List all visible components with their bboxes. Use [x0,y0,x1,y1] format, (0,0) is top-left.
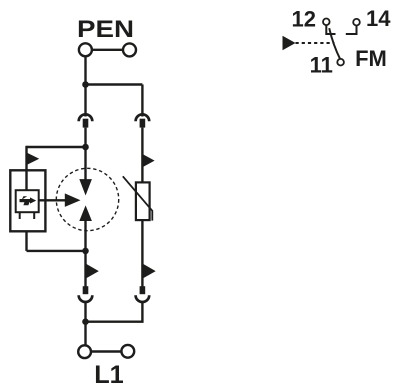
FM contact terminal 11 [337,59,344,66]
terminal L1 left [78,345,91,358]
terminal PEN left [79,43,92,56]
arrow on varistor branch lower [143,264,156,278]
wire trigger box bottom [25,231,27,251]
svg-text:PEN: PEN [77,16,134,43]
wire PEN down [84,56,86,116]
wire branch top horizontal [86,83,143,85]
trigger arrow shaft [39,199,66,201]
spark gap electrode upper [79,179,92,195]
FM fixed contact 14 [346,26,357,34]
wire trigger bottom horizontal [27,250,86,252]
wire center below spark gap [84,220,86,251]
varistor body [136,182,150,220]
spark gap dashed circle [56,168,118,230]
FM contact terminal 12 [323,19,330,26]
arrow on left main lower [86,264,99,278]
wire left to bottom terminal [84,302,86,346]
plug contact socket top right [136,114,150,121]
FM contact terminal 14 [353,19,360,26]
wire center above spark gap [84,147,86,180]
plug contact socket top left [79,114,93,121]
svg-text:14: 14 [366,6,391,31]
wire L1 terminals link [91,350,122,352]
wire trigger branch down [25,146,27,190]
lightning glyph [20,196,37,205]
trigger arrow head [65,193,81,207]
node trigger bottom junction [82,248,89,255]
wire varistor branch top [141,85,143,117]
node PEN branch junction [82,81,89,88]
plug contact socket bottom left [79,295,93,302]
plug contact pin top left [83,119,89,128]
wire PEN terminals link [92,49,123,51]
trigger device legs [20,212,35,219]
svg-text:FM: FM [355,46,387,71]
FM fixed contact 12 [326,25,335,34]
trigger circuit box [10,170,45,231]
spark gap electrode lower [79,205,92,221]
plug contact pin bottom right [140,286,146,294]
varistor diagonal [123,176,153,220]
FM actuator dashed link [296,42,335,44]
terminal L1 right [121,345,134,358]
svg-text:12: 12 [292,7,316,32]
trigger device inner box [16,190,39,212]
svg-text:L1: L1 [94,361,124,389]
plug contact pin top right [140,119,146,128]
plug contact pin bottom left [83,286,89,294]
svg-text:11: 11 [310,53,333,78]
arrow on varistor branch top [143,154,155,167]
arrow on trigger branch [27,153,39,165]
plug contact socket bottom right [136,295,150,302]
FM actuator arrow [283,36,296,50]
wire varistor branch lower [141,220,143,294]
node trigger branch junction [82,144,89,151]
node bottom junction [82,318,89,325]
FM moving contact lever [329,28,340,59]
wire varistor branch middle [141,128,143,183]
wire left main lower [84,251,86,294]
wire left main upper [84,128,86,147]
terminal PEN right [123,43,136,56]
wire trigger branch horizontal [27,146,86,148]
wire varistor branch bottom [86,302,143,322]
